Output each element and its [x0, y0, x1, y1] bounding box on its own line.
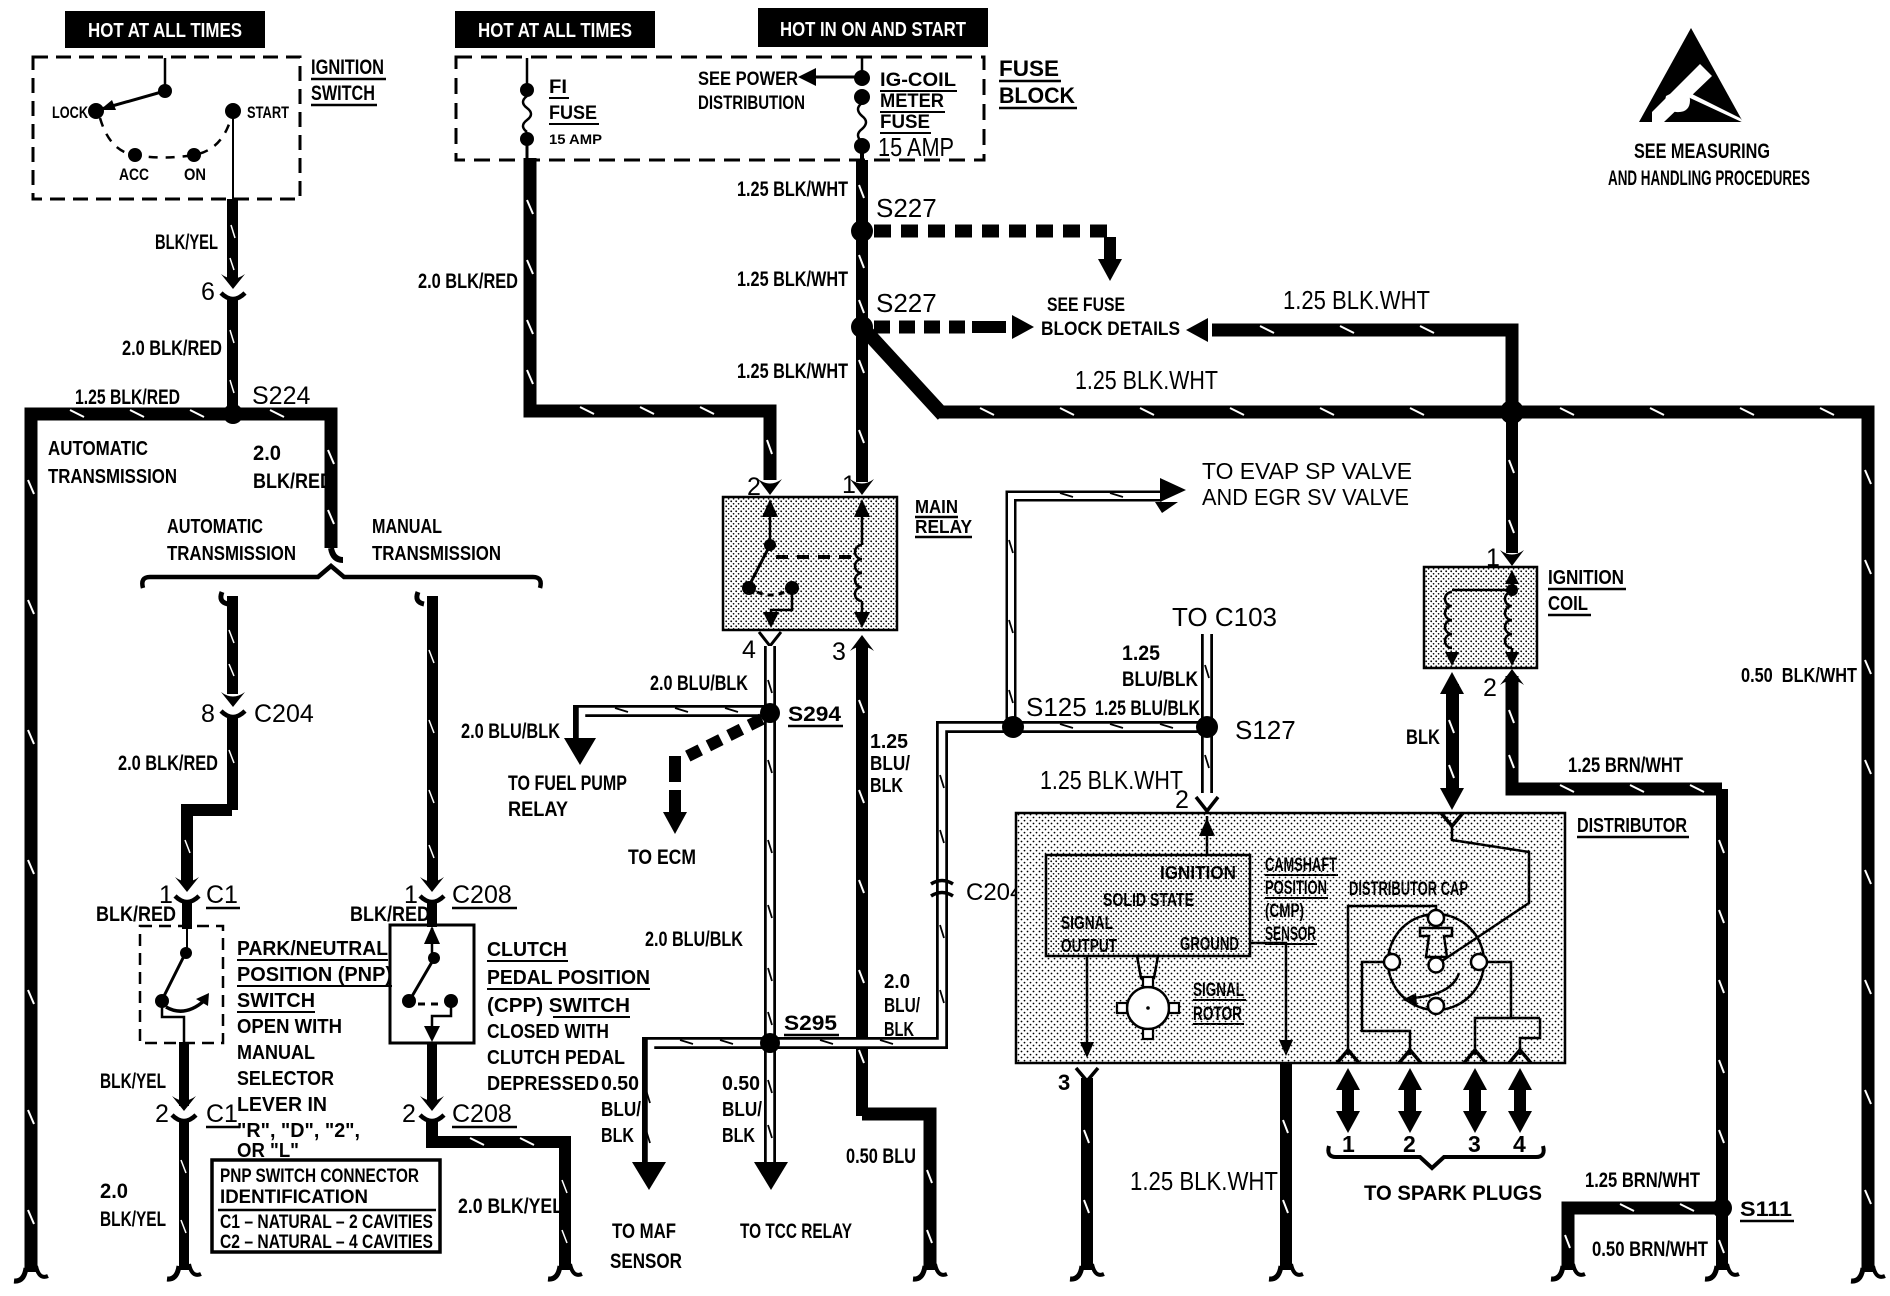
svg-text:BLK: BLK	[601, 1125, 634, 1147]
main relay linkage dashed	[776, 555, 858, 559]
svg-text:TO ECM: TO ECM	[628, 846, 696, 869]
PNP switch text	[237, 938, 392, 1162]
PNP switch contacts	[155, 926, 209, 1042]
cap wire pin 4	[1520, 1018, 1540, 1055]
label SEE MEASURING AND HANDLING PROCEDURES	[1608, 140, 1810, 190]
svg-text:CLUTCH PEDAL: CLUTCH PEDAL	[487, 1047, 625, 1069]
svg-text:6: 6	[201, 278, 215, 306]
svg-text:0.50: 0.50	[601, 1073, 639, 1095]
svg-text:BLK: BLK	[870, 775, 903, 797]
svg-text:AUTOMATIC: AUTOMATIC	[167, 516, 263, 538]
label TO FUEL PUMP RELAY	[508, 772, 627, 821]
svg-text:DISTRIBUTOR CAP: DISTRIBUTOR CAP	[1349, 879, 1468, 900]
svg-text:1: 1	[1342, 1131, 1355, 1157]
svg-text:BLK: BLK	[1406, 726, 1440, 749]
svg-text:DISTRIBUTOR: DISTRIBUTOR	[1577, 815, 1687, 837]
wire BLK double arrow coil to distributor	[1440, 672, 1464, 810]
connector spark plug 4	[1509, 1050, 1531, 1063]
svg-text:SEE MEASURING: SEE MEASURING	[1634, 140, 1770, 163]
node START	[225, 103, 289, 122]
wire below CPP	[427, 1043, 437, 1105]
connector C208 pin 2	[402, 1096, 517, 1128]
svg-text:FUSE: FUSE	[880, 112, 930, 133]
svg-text:RELAY: RELAY	[915, 517, 972, 537]
svg-text:2: 2	[1403, 1131, 1416, 1157]
svg-text:IGNITION: IGNITION	[1548, 567, 1624, 589]
cap wire pin 2	[1362, 962, 1410, 1055]
svg-text:TRANSMISSION: TRANSMISSION	[48, 466, 177, 488]
svg-text:CAMSHAFT: CAMSHAFT	[1265, 855, 1337, 876]
label 0.50 BLU/BLK (center stack)	[722, 1073, 762, 1147]
svg-text:4: 4	[1513, 1131, 1526, 1157]
svg-text:ACC: ACC	[119, 165, 149, 184]
connector relay pin 4	[742, 632, 781, 664]
svg-text:C208: C208	[452, 881, 512, 909]
header box HOT AT ALL TIMES (left)	[65, 11, 265, 48]
bus wire 1.25 BLK.WHT right	[938, 408, 1871, 1272]
wire BLK/YEL from ignition switch	[227, 199, 238, 280]
dashed wire from S227 to fuse block details (right arrow)	[874, 315, 1034, 339]
label MANUAL TRANSMISSION (branch)	[372, 516, 501, 565]
dashed wire S294 to ECM	[663, 719, 762, 834]
svg-text:SWITCH: SWITCH	[237, 990, 315, 1012]
svg-text:FUSE: FUSE	[999, 56, 1059, 81]
IG-COIL fuse	[854, 58, 870, 160]
cap contact top	[1428, 910, 1444, 926]
ignition switch wiper arm	[98, 84, 172, 110]
svg-text:SEE POWER: SEE POWER	[698, 69, 798, 90]
svg-text:1.25 BRN/WHT: 1.25 BRN/WHT	[1568, 754, 1683, 777]
svg-text:MANUAL: MANUAL	[372, 516, 442, 538]
left branch foot	[167, 1264, 201, 1279]
svg-text:1: 1	[1486, 544, 1500, 572]
label 2.0 BLK/YEL (stacked)	[100, 1180, 166, 1231]
svg-text:1.25 BLK.WHT: 1.25 BLK.WHT	[1283, 285, 1430, 315]
wire S111 riser down	[1716, 789, 1728, 1270]
svg-text:0.50 BRN/WHT: 0.50 BRN/WHT	[1592, 1238, 1708, 1261]
transmission split brace	[142, 566, 540, 588]
label 1.25 BLU/BLK (stack above S127)	[1122, 642, 1198, 691]
connector spark plug 1	[1337, 1050, 1359, 1063]
cap contact left	[1384, 954, 1400, 970]
CPP switch box	[390, 925, 474, 1043]
svg-text:FI: FI	[549, 77, 567, 98]
distributor box	[1016, 813, 1565, 1063]
wire into CPP switch	[427, 901, 437, 927]
pin3 wire foot	[913, 1264, 947, 1279]
label 2.0 BLU/BLK (stack near C204)	[884, 971, 920, 1041]
svg-text:CLOSED WITH: CLOSED WITH	[487, 1021, 609, 1043]
svg-text:2.0: 2.0	[100, 1180, 128, 1203]
cap center rotor contact	[1420, 928, 1452, 973]
connector C204 (riser)	[931, 879, 1023, 906]
svg-text:15 AMP: 15 AMP	[878, 132, 954, 162]
svg-text:TO SPARK PLUGS: TO SPARK PLUGS	[1364, 1182, 1542, 1205]
PNP switch box	[140, 926, 223, 1043]
svg-text:1.25: 1.25	[1122, 642, 1160, 665]
svg-text:3: 3	[832, 638, 846, 666]
svg-text:1.25: 1.25	[870, 731, 908, 753]
connector CMP pin 2	[1175, 786, 1218, 814]
wire 0.50 BRN/WHT branch	[1565, 1204, 1716, 1270]
svg-text:1.25 BLK/WHT: 1.25 BLK/WHT	[737, 268, 848, 291]
right branch foot	[548, 1264, 582, 1279]
svg-text:PEDAL POSITION: PEDAL POSITION	[487, 967, 650, 989]
svg-text:DEPRESSED: DEPRESSED	[487, 1073, 599, 1095]
wire 1.25 BRN/WHT coil pin2 to S111	[1509, 676, 1722, 792]
svg-text:2: 2	[1175, 786, 1189, 814]
svg-text:1.25 BLK/WHT: 1.25 BLK/WHT	[737, 360, 848, 383]
svg-text:TO MAF: TO MAF	[612, 1220, 676, 1243]
label DISTRIBUTOR	[1577, 815, 1689, 837]
wire manual branch upper	[417, 592, 438, 884]
svg-text:BLK/RED: BLK/RED	[350, 903, 430, 926]
svg-text:DISTRIBUTION: DISTRIBUTION	[698, 93, 805, 114]
wire 2.0 BLK/RED from FI fuse to relay	[527, 158, 772, 480]
svg-text:BLK/YEL: BLK/YEL	[100, 1070, 166, 1093]
wire to EVAP/EGR (hollow)	[1009, 478, 1186, 721]
svg-text:2: 2	[402, 1100, 416, 1128]
node at right bus junction	[1500, 400, 1524, 424]
label TO EVAP SP VALVE AND EGR SV VALVE	[1202, 458, 1412, 510]
svg-text:0.50 BLU: 0.50 BLU	[846, 1145, 916, 1168]
svg-text:C1: C1	[206, 1100, 238, 1128]
svg-text:PARK/NEUTRAL: PARK/NEUTRAL	[237, 938, 388, 960]
svg-text:C204: C204	[254, 700, 314, 728]
CMP pin2 wire inside box	[1199, 816, 1215, 855]
svg-text:C208: C208	[452, 1100, 512, 1128]
svg-text:3: 3	[1058, 1070, 1070, 1095]
svg-text:SOLID STATE: SOLID STATE	[1103, 890, 1194, 910]
ignition switch label	[311, 56, 386, 105]
label IGNITION COIL	[1548, 567, 1626, 615]
bus wire 1.25 BLK/RED left+down	[28, 410, 343, 1272]
svg-text:0.50: 0.50	[722, 1073, 760, 1095]
svg-text:2: 2	[155, 1100, 169, 1128]
node S224	[223, 404, 243, 424]
wire 2.0 BLU/BLK relay pin4 to S295 (hollow)	[768, 646, 772, 1043]
svg-text:IGNITION: IGNITION	[1160, 863, 1236, 883]
header box HOT AT ALL TIMES (middle)	[455, 11, 655, 48]
svg-text:2.0 BLK/RED: 2.0 BLK/RED	[122, 337, 222, 360]
signal output wire inside box	[1080, 956, 1094, 1058]
main relay coil	[854, 499, 870, 628]
svg-text:RELAY: RELAY	[508, 798, 568, 821]
label FUSE BLOCK	[999, 56, 1077, 108]
svg-text:"R", "D", "2",: "R", "D", "2",	[237, 1120, 360, 1142]
svg-text:C1: C1	[206, 881, 238, 909]
node ACC	[119, 148, 149, 184]
cap wire pin 3	[1475, 962, 1511, 1055]
solid state box	[1046, 855, 1250, 956]
svg-text:IDENTIFICATION: IDENTIFICATION	[220, 1187, 368, 1208]
wire BLK entry to cap center	[1442, 826, 1529, 961]
wire coil pin 1 from bus	[1506, 418, 1518, 553]
wire 1.25 BLK.WHT left arrow from right bus	[1186, 318, 1512, 412]
svg-text:S227: S227	[876, 288, 937, 318]
svg-text:(CMP): (CMP)	[1265, 901, 1304, 922]
fuse block box	[456, 57, 984, 160]
svg-text:2.0 BLU/BLK: 2.0 BLU/BLK	[650, 672, 748, 695]
label CAMSHAFT POSITION (CMP) SENSOR	[1265, 855, 1338, 945]
left bus foot	[14, 1266, 48, 1281]
coil secondary winding	[1505, 570, 1519, 666]
svg-text:TO TCC RELAY: TO TCC RELAY	[740, 1220, 852, 1243]
ground wire inside box	[1250, 943, 1293, 1056]
svg-text:FUSE: FUSE	[549, 103, 597, 124]
svg-text:SWITCH: SWITCH	[311, 82, 375, 105]
connector BLK entry at distributor top	[1441, 813, 1463, 826]
svg-text:C1 – NATURAL – 2 CAVITIES: C1 – NATURAL – 2 CAVITIES	[220, 1212, 433, 1233]
svg-text:2.0: 2.0	[253, 442, 281, 465]
connector coil pin 2	[1483, 669, 1524, 702]
node S227 (1)	[851, 220, 873, 242]
svg-text:1.25 BLU/BLK: 1.25 BLU/BLK	[1095, 697, 1200, 720]
svg-text:POSITION (PNP): POSITION (PNP)	[237, 964, 392, 986]
svg-text:BLU/: BLU/	[601, 1099, 641, 1121]
svg-text:POSITION: POSITION	[1265, 878, 1327, 899]
svg-text:TRANSMISSION: TRANSMISSION	[167, 543, 296, 565]
CPP switch text	[487, 939, 650, 1095]
wire into PNP switch	[182, 901, 192, 929]
label SIGNAL ROTOR	[1193, 980, 1246, 1025]
svg-text:START: START	[247, 103, 289, 122]
node S295	[760, 1033, 780, 1053]
distributor cap circle	[1388, 914, 1484, 1010]
wire 0.50 BLU relay pin3 down (thick)	[856, 644, 932, 1270]
label TO MAF SENSOR	[610, 1220, 682, 1273]
svg-text:S227: S227	[876, 193, 937, 223]
svg-text:S125: S125	[1026, 692, 1087, 722]
ignition switch box	[33, 57, 300, 199]
svg-text:8: 8	[201, 700, 215, 728]
svg-text:ON: ON	[184, 165, 206, 184]
wire 1.25 BLK/WHT fuse to relay pin 1	[856, 160, 868, 482]
wire 0.50 BLU/BLK S295 to MAF (hollow)	[632, 1040, 764, 1190]
svg-text:2.0 BLU/BLK: 2.0 BLU/BLK	[645, 928, 743, 951]
diagonal wire S227 to right bus	[864, 329, 943, 415]
svg-text:1.25 BLK/WHT: 1.25 BLK/WHT	[737, 178, 848, 201]
svg-text:AND HANDLING PROCEDURES: AND HANDLING PROCEDURES	[1608, 167, 1810, 190]
header box HOT IN ON AND START	[758, 8, 988, 47]
wire 1.25 BLU/BLK S295 to C204 riser to S125 (hollow)	[776, 724, 1205, 1044]
svg-text:SELECTOR: SELECTOR	[237, 1068, 334, 1090]
cap wire pin 1	[1348, 906, 1436, 1055]
connector C208 pin 1	[404, 877, 517, 909]
wire START to box bottom	[232, 111, 234, 199]
svg-text:SENSOR: SENSOR	[610, 1250, 682, 1273]
cap contact right	[1471, 954, 1487, 970]
CPP switch contacts	[402, 926, 458, 1042]
svg-text:S111: S111	[1740, 1198, 1792, 1221]
connector relay pin 1	[842, 471, 874, 499]
svg-text:2.0: 2.0	[884, 971, 910, 993]
label 1.25 BLU/BLK (stack left of riser)	[870, 731, 910, 797]
spark plug arrow 1	[1336, 1068, 1360, 1133]
svg-text:2: 2	[1483, 674, 1497, 702]
svg-text:BLK: BLK	[722, 1125, 755, 1147]
svg-text:S294: S294	[788, 703, 841, 726]
node LOCK	[52, 103, 104, 122]
signal rotor stem	[1137, 956, 1158, 978]
connector 6	[201, 274, 245, 306]
connector relay pin 3	[832, 635, 874, 666]
svg-text:TO FUEL PUMP: TO FUEL PUMP	[508, 772, 627, 795]
svg-text:1.25 BRN/WHT: 1.25 BRN/WHT	[1585, 1169, 1700, 1192]
svg-text:S295: S295	[784, 1012, 837, 1035]
svg-text:BLU/: BLU/	[870, 753, 910, 775]
svg-text:2.0 BLK/YEL: 2.0 BLK/YEL	[458, 1195, 563, 1218]
svg-text:PNP SWITCH CONNECTOR: PNP SWITCH CONNECTOR	[220, 1166, 419, 1187]
label SEE POWER DISTRIBUTION	[698, 69, 805, 114]
wire 2.0 BLK/RED to S224	[227, 300, 238, 414]
main relay box	[723, 497, 897, 630]
svg-text:BLU/: BLU/	[722, 1099, 762, 1121]
svg-text:COIL: COIL	[1548, 593, 1588, 615]
svg-text:BLK/RED: BLK/RED	[96, 903, 176, 926]
node S111	[1712, 1198, 1794, 1221]
wire ground down	[1280, 1063, 1292, 1270]
svg-text:S127: S127	[1235, 715, 1296, 745]
ground wire foot	[1269, 1264, 1303, 1279]
svg-text:2.0 BLK/RED: 2.0 BLK/RED	[118, 752, 218, 775]
svg-text:IG-COIL: IG-COIL	[880, 70, 956, 91]
svg-text:S224: S224	[252, 382, 310, 410]
svg-text:(CPP) SWITCH: (CPP) SWITCH	[487, 995, 630, 1017]
svg-text:METER: METER	[880, 91, 944, 112]
svg-text:LEVER IN: LEVER IN	[237, 1094, 327, 1116]
node S127	[1196, 715, 1296, 745]
svg-text:AND EGR SV VALVE: AND EGR SV VALVE	[1202, 484, 1409, 510]
pin 3 wire foot	[1070, 1264, 1104, 1279]
connector relay pin 2	[747, 473, 782, 501]
S111 riser foot	[1705, 1264, 1739, 1279]
ignition switch detent arc	[100, 118, 231, 158]
svg-text:2.0 BLU/BLK: 2.0 BLU/BLK	[461, 720, 560, 743]
connector spark plug 2	[1399, 1050, 1421, 1063]
label AUTOMATIC TRANSMISSION (branch)	[167, 516, 296, 565]
node S227 (2)	[851, 316, 873, 338]
svg-text:1.25 BLK.WHT: 1.25 BLK.WHT	[1040, 765, 1183, 795]
connector spark plug 3	[1464, 1050, 1486, 1063]
wire 2.0 BLK/RED below C204	[185, 718, 238, 884]
svg-text:OUTPUT: OUTPUT	[1061, 936, 1117, 956]
ignition coil box	[1424, 567, 1537, 668]
connector C204 (8)	[201, 692, 314, 728]
label S295	[784, 1012, 839, 1035]
spark plug numbers	[1342, 1131, 1526, 1157]
PNP connector identification box	[212, 1160, 440, 1253]
svg-text:1: 1	[842, 471, 856, 499]
svg-text:BLK/RED: BLK/RED	[253, 470, 333, 493]
spark plug arrow 3	[1463, 1068, 1487, 1133]
label 2.0 BLK/RED (stacked)	[253, 442, 333, 493]
spark plug arrow 4	[1508, 1068, 1532, 1133]
label S224	[252, 382, 316, 411]
label IG-COIL METER FUSE	[880, 70, 957, 133]
SEE POWER DISTRIBUTION arrow	[798, 68, 860, 86]
svg-text:2.0 BLK/RED: 2.0 BLK/RED	[418, 270, 518, 293]
svg-text:3: 3	[1468, 1131, 1481, 1157]
cap rotation arrow	[1402, 973, 1459, 1005]
label AUTOMATIC TRANSMISSION (upper)	[48, 438, 177, 488]
branch wire foot	[1551, 1264, 1585, 1279]
connector coil pin 1	[1486, 544, 1524, 572]
spark plugs brace	[1328, 1146, 1543, 1168]
far right bus foot	[1851, 1266, 1885, 1281]
svg-text:LOCK: LOCK	[52, 103, 89, 122]
label MAIN RELAY	[915, 497, 972, 537]
wire 2.0 BLK/YEL jog right to bottom	[432, 1120, 567, 1270]
label FI FUSE 15 AMP	[549, 77, 602, 147]
node S294	[760, 703, 843, 726]
svg-text:SIGNAL: SIGNAL	[1193, 980, 1244, 1001]
svg-text:1.25 BLK/RED: 1.25 BLK/RED	[75, 386, 180, 409]
spark plug arrow 2	[1398, 1068, 1422, 1133]
svg-text:MANUAL: MANUAL	[237, 1042, 315, 1064]
svg-text:BLU/: BLU/	[884, 995, 920, 1017]
svg-text:4: 4	[742, 636, 756, 664]
wire solid state pin 3 down	[1058, 1068, 1098, 1270]
svg-text:CLUTCH: CLUTCH	[487, 939, 567, 961]
svg-text:BLK/YEL: BLK/YEL	[100, 1208, 166, 1231]
cap wire pin3-4 link	[1511, 1017, 1540, 1020]
FI fuse	[520, 58, 534, 160]
svg-text:TO EVAP SP VALVE: TO EVAP SP VALVE	[1202, 458, 1412, 484]
wire BLK/YEL below PNP	[179, 1042, 189, 1106]
node ON	[184, 148, 206, 184]
svg-text:SIGNAL: SIGNAL	[1061, 913, 1113, 933]
label SEE FUSE BLOCK DETAILS	[1041, 295, 1180, 340]
wire 2.0 BLU/BLK S294 branch to fuel pump (hollow)	[564, 708, 764, 765]
svg-text:1.25 BLK.WHT: 1.25 BLK.WHT	[1130, 1166, 1278, 1196]
connector C1 pin 1	[159, 877, 240, 909]
cap contact bottom	[1428, 998, 1444, 1014]
svg-text:BLOCK DETAILS: BLOCK DETAILS	[1041, 319, 1180, 340]
svg-text:BLOCK: BLOCK	[999, 83, 1075, 108]
svg-text:15 AMP: 15 AMP	[549, 131, 602, 147]
ESD warning triangle	[1639, 28, 1746, 124]
svg-text:ROTOR: ROTOR	[1193, 1004, 1242, 1025]
node S125	[1002, 692, 1087, 738]
connector C1 pin 2	[155, 1096, 240, 1128]
coil primary winding	[1445, 590, 1512, 666]
svg-text:C2 – NATURAL – 4 CAVITIES: C2 – NATURAL – 4 CAVITIES	[220, 1232, 433, 1253]
label 0.50 BLU/BLK (left stack)	[601, 1073, 641, 1147]
svg-text:MAIN: MAIN	[915, 497, 958, 517]
svg-text:0.50 BLK/WHT: 0.50 BLK/WHT	[1741, 665, 1857, 687]
svg-text:SEE FUSE: SEE FUSE	[1047, 295, 1125, 316]
svg-text:BLU/BLK: BLU/BLK	[1122, 668, 1198, 691]
wire 2.0 BLK/YEL to bottom	[179, 1122, 189, 1270]
svg-text:HOT AT ALL TIMES: HOT AT ALL TIMES	[478, 20, 632, 42]
ignition switch feed wire	[164, 58, 167, 91]
wire 0.50 BLU/BLK S295 to TCC (hollow)	[754, 1043, 788, 1190]
svg-text:HOT IN ON AND START: HOT IN ON AND START	[780, 19, 966, 41]
svg-text:AUTOMATIC: AUTOMATIC	[48, 438, 148, 460]
svg-text:GROUND: GROUND	[1180, 934, 1239, 954]
wire automatic branch upper	[221, 592, 238, 694]
main relay switch	[742, 499, 799, 628]
svg-text:TRANSMISSION: TRANSMISSION	[372, 543, 501, 565]
dashed wire from S227 to fuse block details (down arrow)	[874, 231, 1122, 281]
svg-text:BLK/YEL: BLK/YEL	[155, 231, 218, 254]
signal rotor	[1117, 977, 1179, 1039]
svg-text:IGNITION: IGNITION	[311, 56, 384, 79]
svg-text:1.25 BLK.WHT: 1.25 BLK.WHT	[1075, 365, 1218, 395]
svg-text:OPEN WITH: OPEN WITH	[237, 1016, 342, 1038]
solid state text	[1061, 863, 1239, 956]
